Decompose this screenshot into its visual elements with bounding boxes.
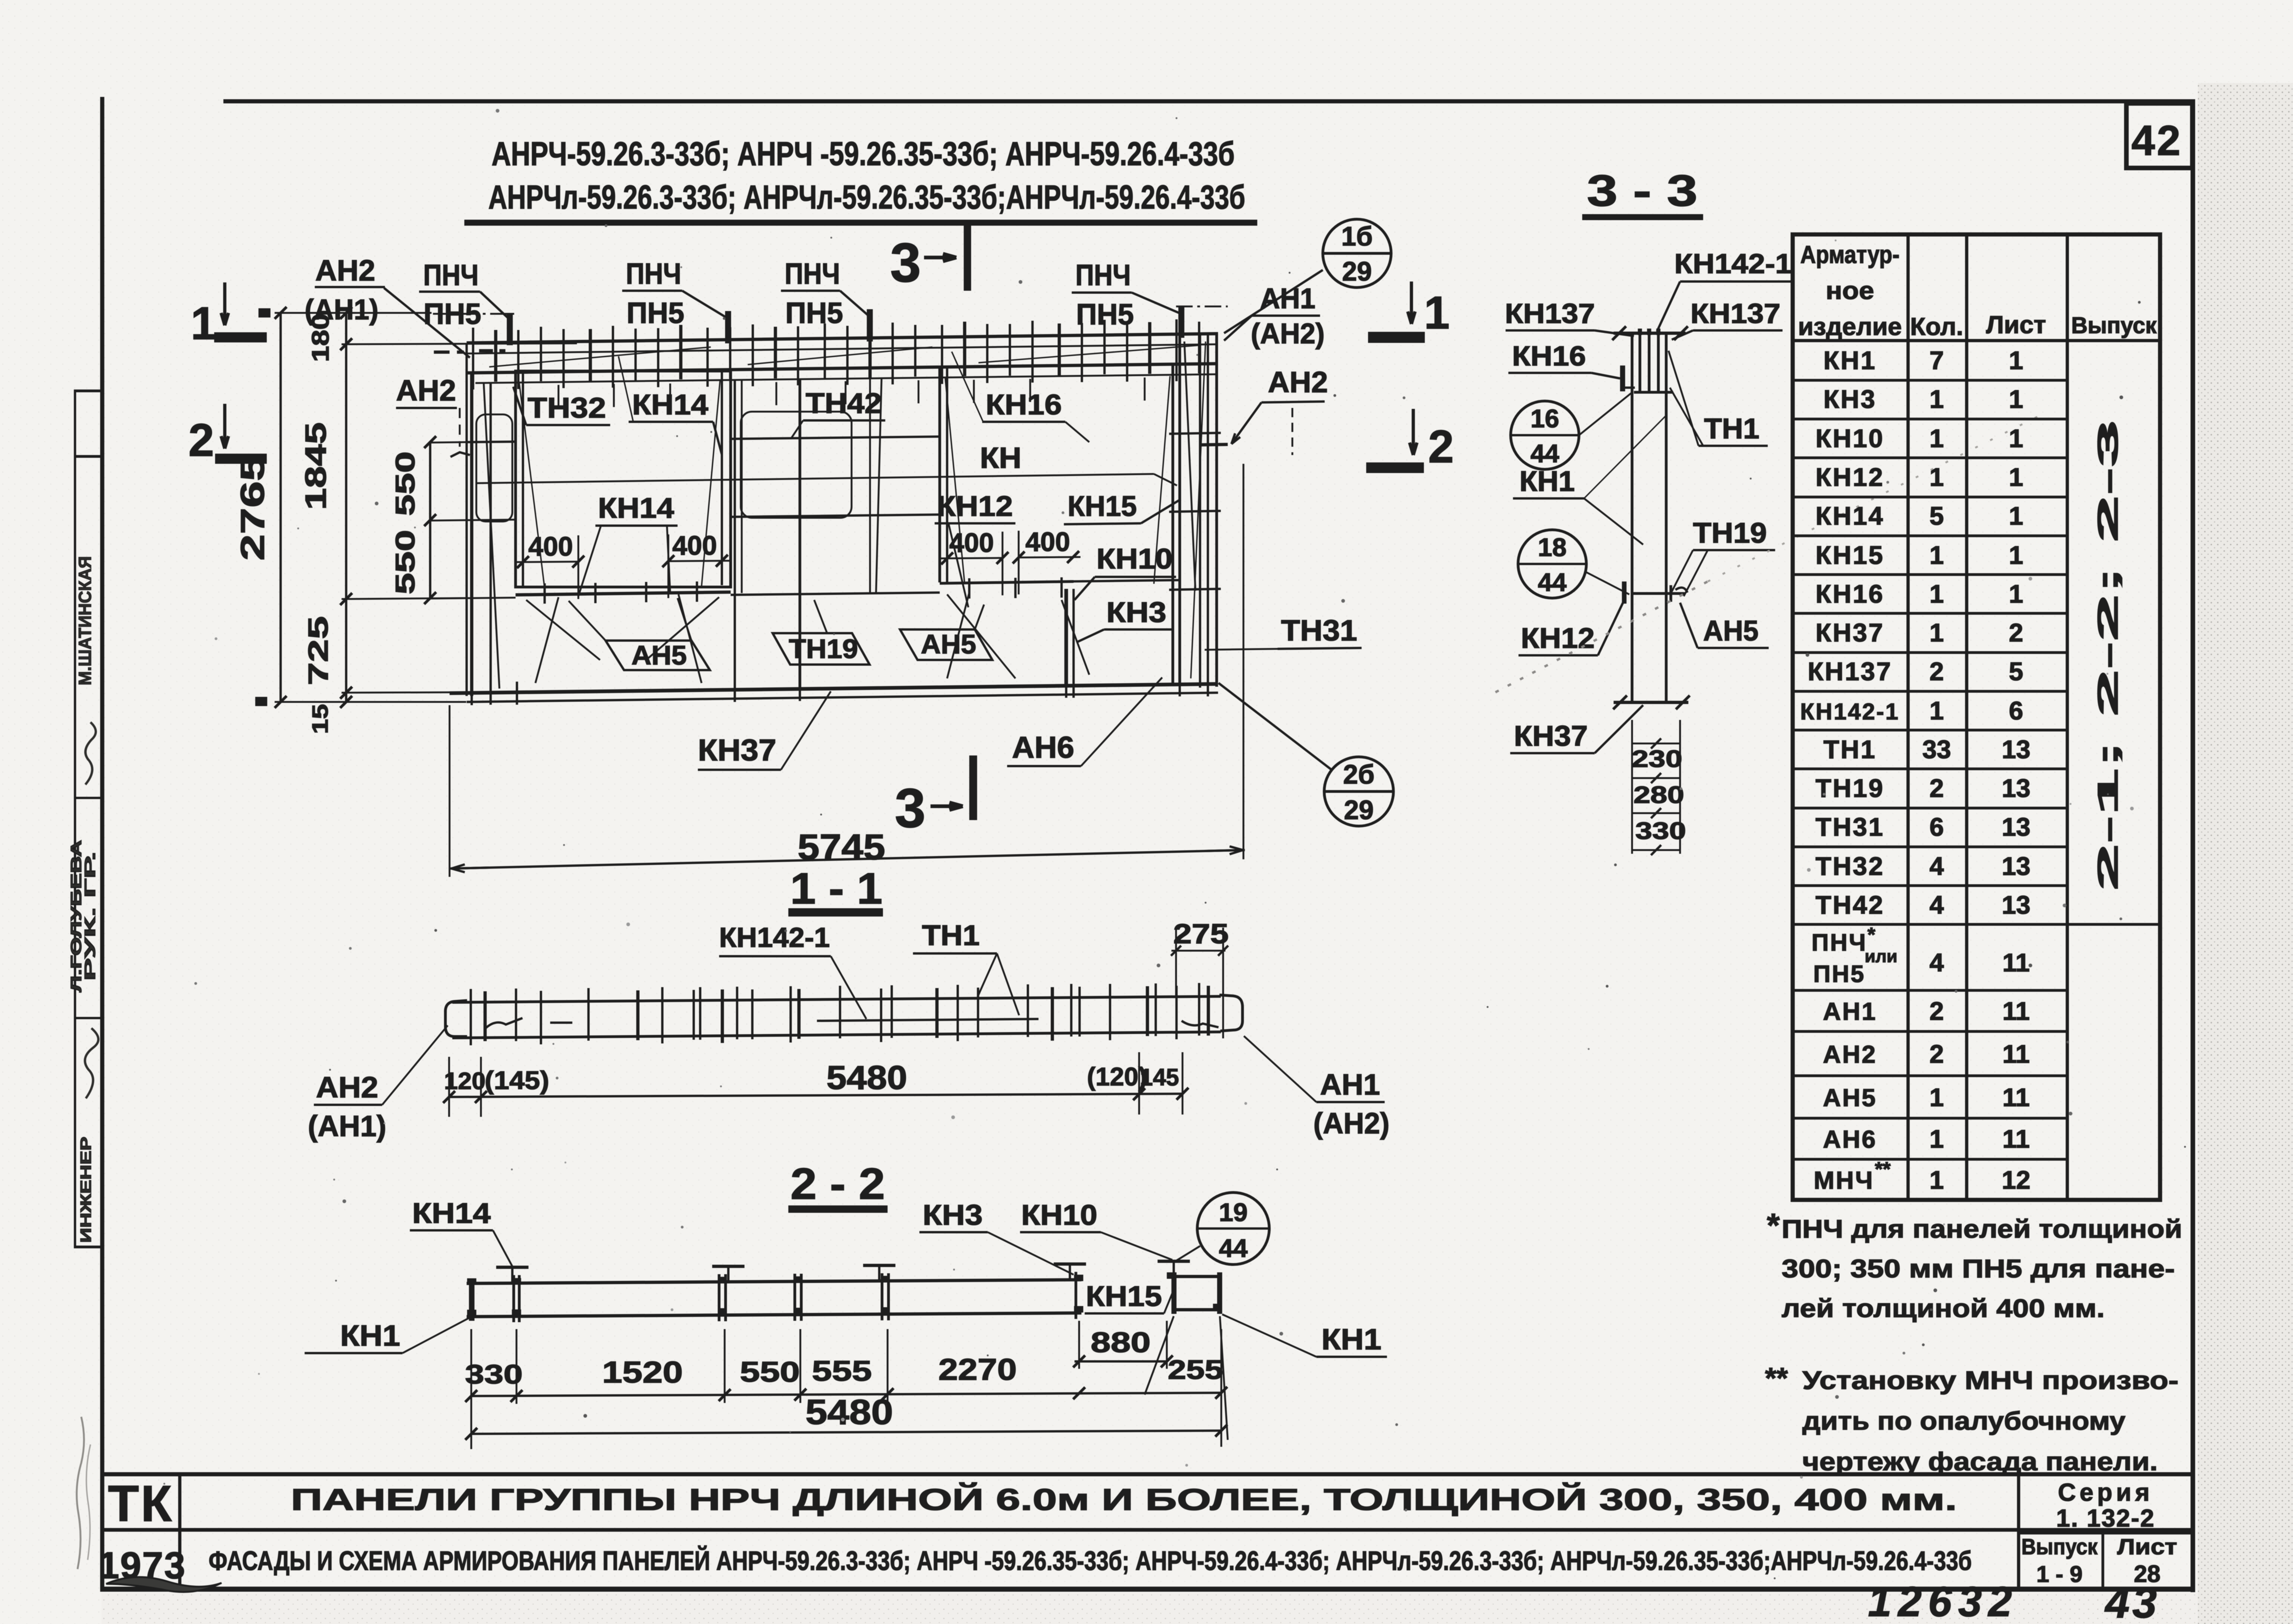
panel top band vertical ticks xyxy=(472,328,474,390)
svg-text:АН2: АН2 xyxy=(1823,1041,1877,1068)
svg-text:1: 1 xyxy=(2009,462,2023,491)
section 3-3 КН12 tick xyxy=(1622,581,1627,604)
dimension 400 left window b xyxy=(668,561,731,561)
svg-text:*: * xyxy=(1767,1207,1780,1244)
svg-text:2: 2 xyxy=(188,414,214,466)
svg-text:12: 12 xyxy=(2002,1165,2030,1194)
label АН5 right xyxy=(900,629,992,660)
svg-text:АН5: АН5 xyxy=(631,641,687,671)
svg-text:400: 400 xyxy=(528,532,573,562)
svg-text:330: 330 xyxy=(1635,818,1686,845)
svg-text:Арматур-: Арматур- xyxy=(1801,241,1900,269)
svg-text:или: или xyxy=(1865,947,1897,966)
svg-text:275: 275 xyxy=(1173,918,1229,949)
table header row xyxy=(1793,339,2160,342)
svg-text:5480: 5480 xyxy=(805,1393,893,1432)
title block top rule xyxy=(102,1472,2192,1476)
svg-text:КН37: КН37 xyxy=(1816,618,1885,647)
window opening left xyxy=(516,371,731,587)
svg-text:11: 11 xyxy=(2002,1124,2029,1153)
svg-text:5: 5 xyxy=(1929,501,1944,530)
svg-text:ПНЧ для панелей толщиной: ПНЧ для панелей толщиной xyxy=(1782,1214,2182,1243)
svg-text:19: 19 xyxy=(1219,1198,1248,1227)
drawing frame left border xyxy=(100,97,104,1591)
svg-text:550: 550 xyxy=(390,451,420,516)
svg-text:1: 1 xyxy=(1929,540,1944,569)
svg-text:КН142-1: КН142-1 xyxy=(719,922,830,953)
table row ТН19 xyxy=(1793,807,2067,809)
table column rules xyxy=(1907,234,1910,1200)
dimension 5480 overall 2-2 xyxy=(471,1431,1221,1434)
svg-text:КН3: КН3 xyxy=(1106,597,1166,629)
svg-text:КН1: КН1 xyxy=(340,1319,400,1352)
svg-text:3: 3 xyxy=(895,777,926,839)
smudge under 1973 xyxy=(106,1577,222,1592)
panel bottom band xyxy=(450,684,1218,693)
svg-text:2: 2 xyxy=(1929,996,1944,1025)
scanner dither right margin xyxy=(2198,83,2293,1624)
thin diagonal in right window xyxy=(945,378,965,584)
svg-text:ПН5: ПН5 xyxy=(1813,961,1866,988)
svg-text:280: 280 xyxy=(1633,782,1684,809)
svg-text:(145): (145) xyxy=(485,1066,549,1095)
section 1-1 dimension line xyxy=(449,1094,1183,1097)
svg-text:КН14: КН14 xyxy=(412,1198,491,1229)
svg-text:МНЧ: МНЧ xyxy=(1814,1167,1874,1194)
svg-text:АН2: АН2 xyxy=(315,254,375,287)
svg-text:1: 1 xyxy=(1929,462,1944,491)
svg-text:(АН1): (АН1) xyxy=(308,1109,386,1143)
window opening right xyxy=(938,367,941,582)
svg-text:11: 11 xyxy=(2002,948,2029,977)
axis circle 2б/29 xyxy=(1324,757,1393,826)
section 2-2 left end post xyxy=(469,1279,474,1321)
panel left edge bars xyxy=(466,343,468,696)
svg-text:КН1: КН1 xyxy=(1321,1323,1381,1356)
svg-text:ПН5: ПН5 xyxy=(1076,298,1134,331)
section 3-3 КН16 tick xyxy=(1620,366,1625,391)
table row КН16 xyxy=(1793,612,2067,615)
section 1-1 mid bar КН142-1 xyxy=(817,1019,1038,1021)
svg-text:АН1: АН1 xyxy=(1320,1068,1380,1101)
svg-text:КН3: КН3 xyxy=(1824,384,1877,413)
faint handwriting smudge bottom left xyxy=(77,1417,84,1569)
scattered scan specks xyxy=(1333,394,1336,397)
section 3-3 mid connection АН5 xyxy=(1632,592,1685,595)
detail circle 18/44 xyxy=(1518,530,1586,598)
svg-text:11: 11 xyxy=(2002,996,2029,1025)
svg-text:АНРЧ-59.26.3-33б; АНРЧ -59.26.: АНРЧ-59.26.3-33б; АНРЧ -59.26.35-33б; АН… xyxy=(492,136,1235,173)
svg-text:КН15: КН15 xyxy=(1068,491,1137,522)
svg-text:Лист: Лист xyxy=(1986,311,2046,339)
sill hook marks left window xyxy=(544,583,546,604)
svg-text:ТН1: ТН1 xyxy=(1824,735,1877,764)
svg-text:АН1: АН1 xyxy=(1260,283,1315,315)
pier vertical bars xyxy=(734,379,736,691)
svg-text:11: 11 xyxy=(2002,1039,2029,1068)
leader from axis circle 1б xyxy=(1224,270,1323,333)
section 1-1 beam chords xyxy=(452,996,1221,1002)
svg-text:РУК. ГР.: РУК. ГР. xyxy=(82,851,98,981)
sheet number box 42 xyxy=(2126,103,2192,168)
svg-text:230: 230 xyxy=(1632,746,1682,773)
svg-text:АН5: АН5 xyxy=(1823,1084,1877,1112)
svg-text:1: 1 xyxy=(2009,424,2023,453)
stirrup loop pier xyxy=(741,412,852,518)
svg-text:2: 2 xyxy=(1929,657,1944,686)
svg-text:АН1: АН1 xyxy=(1823,998,1877,1025)
section 3-3 bottom dim 230 xyxy=(1679,720,1681,854)
svg-text:КН14: КН14 xyxy=(598,492,675,524)
svg-text:ное: ное xyxy=(1826,277,1874,305)
svg-text:44: 44 xyxy=(1219,1234,1248,1263)
parts table outer frame xyxy=(1793,234,2160,1200)
section 3-3 member vertical chords xyxy=(1631,332,1633,702)
title block mid rule xyxy=(102,1528,2192,1532)
svg-text:чертежу фасада панели.: чертежу фасада панели. xyxy=(1802,1447,2158,1476)
svg-text:1: 1 xyxy=(1929,1124,1944,1153)
panel left margin vertical bar xyxy=(490,382,492,692)
svg-text:ПН5: ПН5 xyxy=(424,297,481,330)
svg-text:725: 725 xyxy=(303,616,334,685)
stirrup loop left margin xyxy=(476,414,512,521)
svg-text:550: 550 xyxy=(740,1356,800,1388)
svg-text:4: 4 xyxy=(1929,851,1944,881)
svg-text:ФАСАДЫ И СХЕМА АРМИРОВАНИЯ: ФАСАДЫ И СХЕМА АРМИРОВАНИЯ ПАНЕЛЕЙ АНРЧ-… xyxy=(209,1546,1972,1576)
svg-text:Установку МНЧ произво-: Установку МНЧ произво- xyxy=(1802,1366,2179,1395)
stamp signature 1 xyxy=(85,722,96,785)
svg-text:550: 550 xyxy=(390,530,420,594)
svg-text:дить по опалубочному: дить по опалубочному xyxy=(1802,1406,2125,1435)
svg-text:КН16: КН16 xyxy=(986,389,1062,421)
table row КН137 xyxy=(1793,690,2067,693)
scan artifact dotted diagonal xyxy=(1495,581,1708,692)
table row КН15 xyxy=(1793,573,2067,576)
svg-text:29: 29 xyxy=(1342,257,1372,287)
svg-text:Кол.: Кол. xyxy=(1910,313,1963,341)
svg-text:2270: 2270 xyxy=(938,1352,1017,1386)
band long drop ticks xyxy=(558,385,559,408)
svg-text:КН142-1: КН142-1 xyxy=(1800,699,1900,725)
detail circle 16/44 xyxy=(1511,401,1579,469)
table row АН1 xyxy=(1793,1030,2067,1033)
svg-text:**: ** xyxy=(1765,1361,1788,1395)
dimension chain 180/1845/725/15 xyxy=(345,313,348,702)
svg-text:КН16: КН16 xyxy=(1816,579,1885,608)
svg-text:5745: 5745 xyxy=(798,827,885,867)
svg-text:ИНЖЕНЕР: ИНЖЕНЕР xyxy=(78,1137,94,1243)
svg-text:1 - 1: 1 - 1 xyxy=(790,864,882,913)
svg-text:1: 1 xyxy=(2009,384,2023,413)
label ТН19 xyxy=(773,633,870,665)
section 3-3 top stirrup verticals xyxy=(1639,335,1641,391)
svg-text:1б: 1б xyxy=(1341,222,1373,252)
svg-text:5480: 5480 xyxy=(827,1060,907,1097)
svg-text:КН16: КН16 xyxy=(1512,341,1586,372)
svg-text:КН10: КН10 xyxy=(1816,424,1885,453)
dash-dot panel top edge line xyxy=(433,313,516,315)
svg-text:330: 330 xyxy=(465,1360,523,1390)
svg-text:1: 1 xyxy=(1929,424,1944,453)
stamp column cell separators xyxy=(74,390,102,392)
svg-text:300; 350 мм ПН5 для пане-: 300; 350 мм ПН5 для пане- xyxy=(1782,1254,2175,1283)
horizontal bar row y1125 xyxy=(429,520,516,521)
svg-text:(АН2): (АН2) xyxy=(1314,1107,1390,1140)
svg-text:12632: 12632 xyxy=(1868,1578,2018,1624)
embed ПНЧ tick 2 xyxy=(725,311,731,343)
drawing frame top border xyxy=(223,99,2195,103)
section 2-2 hat marks xyxy=(496,1266,528,1269)
svg-text:1: 1 xyxy=(2009,346,2023,375)
svg-text:ТН32: ТН32 xyxy=(1816,851,1885,881)
svg-text:2765: 2765 xyxy=(234,455,271,561)
header underline xyxy=(464,220,1257,226)
svg-text:ПНЧ: ПНЧ xyxy=(1075,258,1131,292)
svg-text:ТН19: ТН19 xyxy=(789,634,858,664)
hook marks left of panel xyxy=(450,452,470,457)
svg-text:13: 13 xyxy=(2002,773,2030,803)
embed ПНЧ tick 4 xyxy=(1178,306,1184,338)
svg-text:ПНЧ: ПНЧ xyxy=(626,257,681,290)
thin diagonal in left window xyxy=(519,383,545,588)
table row ТН1 xyxy=(1793,767,2067,770)
svg-text:555: 555 xyxy=(812,1355,872,1387)
svg-text:2 - 2: 2 - 2 xyxy=(791,1159,885,1209)
svg-text:1520: 1520 xyxy=(602,1355,683,1389)
svg-text:АН2: АН2 xyxy=(316,1071,378,1104)
svg-text:ПНЧ: ПНЧ xyxy=(1812,929,1867,956)
section 2-2 corner blobs xyxy=(467,1278,476,1285)
svg-text:11: 11 xyxy=(2002,1083,2029,1112)
embed ПНЧ tick 3 xyxy=(867,309,873,342)
embed ПНЧ tick 1 xyxy=(507,313,513,345)
svg-text:ТН31: ТН31 xyxy=(1281,614,1357,647)
svg-text:1: 1 xyxy=(1929,696,1944,725)
panel right edge bars xyxy=(1199,335,1201,688)
svg-text:43: 43 xyxy=(2104,1578,2160,1624)
svg-text:КН14: КН14 xyxy=(632,389,709,421)
diagonal ext right piece xyxy=(1145,1316,1174,1395)
table row АН6 xyxy=(1793,1158,2067,1161)
svg-text:КН1: КН1 xyxy=(1519,466,1575,497)
stamp column vertical rule xyxy=(74,390,76,1248)
svg-text:13: 13 xyxy=(2002,890,2030,919)
svg-text:1: 1 xyxy=(2009,579,2023,608)
section 2-2 posts xyxy=(512,1275,515,1322)
dimension 400 right window a xyxy=(940,558,1002,558)
svg-text:400: 400 xyxy=(1026,527,1070,557)
svg-text:АН5: АН5 xyxy=(1703,615,1759,647)
svg-text:АН6: АН6 xyxy=(1012,730,1074,764)
svg-text:1: 1 xyxy=(2009,501,2023,530)
axis circle 1б/29 xyxy=(1323,219,1391,288)
series mid rule xyxy=(2017,1531,2192,1534)
svg-text:2б: 2б xyxy=(1343,760,1375,790)
svg-text:КН15: КН15 xyxy=(1816,540,1885,569)
svg-text:Лист: Лист xyxy=(2117,1535,2177,1559)
svg-text:ТН1: ТН1 xyxy=(922,920,980,952)
table row КН12 xyxy=(1793,496,2067,498)
title block series cell rule xyxy=(2017,1474,2020,1588)
svg-text:КН10: КН10 xyxy=(1097,543,1173,575)
svg-text:М.ШАТИНСКАЯ: М.ШАТИНСКАЯ xyxy=(76,556,95,685)
bent bars under right window xyxy=(947,594,1015,678)
svg-text:255: 255 xyxy=(1168,1355,1223,1385)
sill hook marks right window xyxy=(968,578,971,599)
svg-text:16: 16 xyxy=(1531,404,1559,433)
bottom band ticks xyxy=(471,682,473,705)
svg-text:КН14: КН14 xyxy=(1816,501,1885,530)
svg-text:ПН5: ПН5 xyxy=(786,296,843,330)
svg-text:15: 15 xyxy=(308,704,333,734)
dimension line 2765 xyxy=(280,313,282,702)
table row КН3 xyxy=(1793,418,2067,420)
svg-text:ТН1: ТН1 xyxy=(1704,413,1759,445)
svg-text:КН15: КН15 xyxy=(1086,1281,1162,1312)
drawing frame bottom border xyxy=(100,1587,2195,1592)
svg-text:1: 1 xyxy=(191,298,216,349)
horizontal bar row y956 xyxy=(429,442,467,443)
svg-text:1: 1 xyxy=(1929,579,1944,608)
table row КН142-1 xyxy=(1793,729,2067,731)
table row КН14 xyxy=(1793,534,2067,537)
svg-text:400: 400 xyxy=(672,531,717,561)
section 1-1 beam right end hook xyxy=(1219,995,1243,1031)
dimension 400 right window b xyxy=(1019,557,1080,557)
table row ПНЧ/ПН5 xyxy=(1793,989,2067,992)
svg-text:2: 2 xyxy=(1428,421,1454,473)
panel top band chord lines xyxy=(467,334,1218,343)
table row ТН31 xyxy=(1793,845,2067,848)
dimension line 5745 xyxy=(450,850,1245,869)
svg-text:ПНЧ: ПНЧ xyxy=(785,257,840,290)
svg-text:Выпуск: Выпуск xyxy=(2071,312,2157,338)
svg-text:4: 4 xyxy=(1929,890,1944,919)
section 2-2 right piece xyxy=(1171,1275,1222,1278)
svg-text:1: 1 xyxy=(1929,1083,1944,1112)
section 2-2 right piece hat xyxy=(1158,1260,1190,1263)
door notch opening bottom right xyxy=(1064,589,1068,688)
horizontal bar row y1294 xyxy=(429,598,516,599)
section 1-1 beam cross ticks xyxy=(470,989,472,1045)
section 2-2 beam chords xyxy=(467,1280,1081,1283)
svg-text:880: 880 xyxy=(1091,1327,1151,1359)
svg-text:120: 120 xyxy=(444,1068,486,1095)
detail circle 19/44 xyxy=(1197,1193,1269,1264)
svg-text:изделие: изделие xyxy=(1798,313,1902,341)
svg-text:4: 4 xyxy=(1929,948,1944,977)
svg-text:1: 1 xyxy=(2009,540,2023,569)
title block ТК cell rule xyxy=(178,1474,181,1588)
label АН5 left xyxy=(606,641,710,670)
svg-text:КН37: КН37 xyxy=(698,733,776,767)
table row АН5 xyxy=(1793,1117,2067,1120)
svg-text:ТН19: ТН19 xyxy=(1816,773,1885,803)
svg-text:КН37: КН37 xyxy=(1514,720,1588,752)
svg-text:КН12: КН12 xyxy=(937,491,1013,522)
dimension chain 550/550 xyxy=(429,442,432,598)
svg-text:АН2: АН2 xyxy=(1268,366,1328,399)
right margin window-side bars xyxy=(1184,342,1195,591)
table row КН1 xyxy=(1793,379,2067,382)
svg-text:13: 13 xyxy=(2002,812,2030,841)
svg-text:1: 1 xyxy=(1424,287,1450,339)
svg-text:6: 6 xyxy=(2009,696,2023,725)
svg-text:145: 145 xyxy=(1140,1064,1179,1091)
section 1-1 beam left end hook xyxy=(445,1001,467,1037)
svg-text:5: 5 xyxy=(2009,657,2023,686)
svg-text:ТН19: ТН19 xyxy=(1693,517,1767,549)
svg-text:АН5: АН5 xyxy=(921,629,976,659)
leader from panel corner to axis circle 2б xyxy=(1219,683,1332,770)
svg-text:13: 13 xyxy=(2002,851,2030,881)
svg-text:18: 18 xyxy=(1538,533,1567,562)
section 3-3 top bar with arrows xyxy=(1614,332,1686,335)
svg-text:АНРЧл-59.26.3-33б; АНРЧл-59.26: АНРЧл-59.26.3-33б; АНРЧл-59.26.35-33б;АН… xyxy=(488,179,1245,216)
svg-text:3: 3 xyxy=(890,232,921,294)
table row ТН32 xyxy=(1793,884,2067,887)
svg-text:13: 13 xyxy=(2002,735,2030,764)
svg-text:КН142-1: КН142-1 xyxy=(1675,248,1792,279)
svg-text:1845: 1845 xyxy=(299,422,332,510)
svg-text:ТН42: ТН42 xyxy=(1816,890,1885,919)
svg-text:КН10: КН10 xyxy=(1021,1199,1098,1231)
svg-text:2-1; 2-2; 2-3: 2-1; 2-2; 2-3 xyxy=(2092,420,2124,891)
svg-text:2: 2 xyxy=(1929,773,1944,803)
svg-text:44: 44 xyxy=(1531,439,1559,468)
svg-text:1: 1 xyxy=(1929,1165,1944,1194)
svg-text:3 - 3: 3 - 3 xyxy=(1587,166,1698,216)
svg-text:ТН31: ТН31 xyxy=(1816,812,1885,841)
svg-text:ПН5: ПН5 xyxy=(627,296,684,330)
svg-text:(АН2): (АН2) xyxy=(1251,318,1325,350)
svg-text:7: 7 xyxy=(1929,346,1944,375)
svg-text:лей толщиной 400 мм.: лей толщиной 400 мм. xyxy=(1782,1294,2105,1323)
svg-text:6: 6 xyxy=(1929,812,1944,841)
table row КН10 xyxy=(1793,456,2067,459)
series sub cell rule xyxy=(2101,1531,2104,1588)
svg-text:1: 1 xyxy=(1929,384,1944,413)
КН long leader bar xyxy=(475,474,1154,483)
dimension 400 left window a xyxy=(516,562,578,562)
svg-text:1 - 9: 1 - 9 xyxy=(2036,1561,2083,1587)
svg-text:*: * xyxy=(1867,923,1876,946)
svg-text:33: 33 xyxy=(1922,735,1951,764)
svg-text:КН137: КН137 xyxy=(1691,298,1781,329)
svg-text:1. 132-2: 1. 132-2 xyxy=(2056,1504,2155,1532)
svg-text:(120): (120) xyxy=(1087,1062,1147,1091)
table row АН2 xyxy=(1793,1074,2067,1077)
table row КН37 xyxy=(1793,651,2067,654)
section 3-3 bottom bar with arrows xyxy=(1614,701,1688,704)
svg-text:(АН1): (АН1) xyxy=(305,294,378,326)
scanner dither bottom margin xyxy=(102,1593,2198,1624)
svg-text:АН2: АН2 xyxy=(396,374,456,407)
svg-text:АН6: АН6 xyxy=(1823,1126,1877,1153)
svg-text:КН137: КН137 xyxy=(1807,657,1892,686)
svg-text:КН1: КН1 xyxy=(1824,346,1877,375)
svg-text:КН12: КН12 xyxy=(1816,462,1885,491)
table row ТН42 xyxy=(1793,923,2160,926)
drawing frame right border xyxy=(2191,99,2195,1592)
stamp signature 2 xyxy=(85,1028,98,1098)
svg-text:Выпуск: Выпуск xyxy=(2022,1535,2098,1559)
svg-text:**: ** xyxy=(1875,1158,1891,1181)
svg-text:ТН32: ТН32 xyxy=(528,392,606,424)
svg-text:42: 42 xyxy=(2131,117,2182,164)
band inclined bars xyxy=(489,347,711,367)
svg-text:КН3: КН3 xyxy=(923,1199,983,1231)
